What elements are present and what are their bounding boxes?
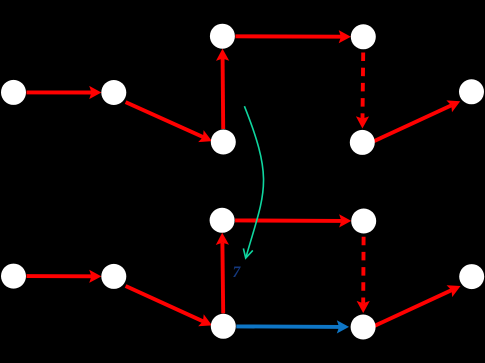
wire edge B1->C1 (red arrow) [126,102,212,142]
wire edge B2->C2 (red arrow) [126,286,212,326]
svg-text:7: 7 [233,264,242,281]
node E2 [351,209,376,234]
node E1 [351,24,376,49]
wire edge C1->D1 (red arrow) [216,49,229,129]
node A2 [1,264,26,289]
wire edge A1->B1 (red arrow) [27,86,102,99]
wire edge E2->F2 (red dashed arrow) [357,237,370,313]
node B2 [101,264,126,289]
node F2 [351,315,376,340]
wire edge F2->G2 (red arrow) [375,285,461,326]
node D2 [210,208,235,233]
node C1 [211,130,236,155]
wire edge C2->D2 (red arrow) [216,233,229,314]
node A1 [1,80,26,105]
wire edge D1->E1 (red arrow) [235,30,351,43]
node G2 [459,264,484,289]
wire edge D2->E2 (red arrow) [235,214,351,227]
node C2 [211,314,236,339]
node B1 [101,80,126,105]
wire edge F1->G1 (red arrow) [374,100,460,141]
node F1 [350,130,375,155]
node D1 [210,24,235,49]
node G1 [459,79,484,104]
wire edge A2->B2 (red arrow) [27,270,102,283]
wire edge E1->F1 (red dashed arrow) [356,53,369,129]
wire edge C2->F2 (blue arrow) [236,320,349,333]
wire green curved arrow (query edge) [243,106,263,258]
